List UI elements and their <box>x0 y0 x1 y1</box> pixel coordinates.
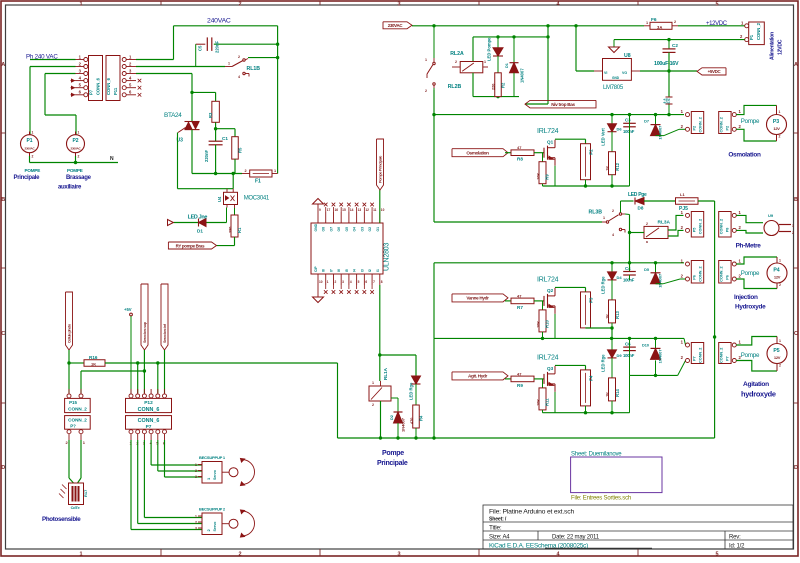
svg-text:1: 1 <box>195 515 197 519</box>
svg-text:2: 2 <box>779 283 781 287</box>
svg-text:12V: 12V <box>773 126 780 131</box>
svg-text:CONN_2: CONN_2 <box>720 219 724 234</box>
svg-text:POMPE: POMPE <box>67 168 83 173</box>
svg-text:Osmolation: Osmolation <box>728 152 761 159</box>
svg-text:R16: R16 <box>89 355 98 360</box>
svg-text:Pompe: Pompe <box>741 352 760 359</box>
svg-text:P2: P2 <box>72 138 78 144</box>
svg-text:O1: O1 <box>376 227 380 232</box>
svg-text:5: 5 <box>715 551 718 557</box>
svg-text:Rev:: Rev: <box>729 535 741 541</box>
svg-text:2: 2 <box>674 20 676 24</box>
svg-text:+5VDC: +5VDC <box>708 69 722 74</box>
svg-text:220nF: 220nF <box>215 40 220 53</box>
svg-text:R9: R9 <box>517 383 523 388</box>
svg-text:D4: D4 <box>617 275 623 280</box>
svg-text:RL2B: RL2B <box>448 84 462 90</box>
svg-text:12V: 12V <box>774 355 781 360</box>
svg-text:F2: F2 <box>589 149 594 155</box>
svg-text:47: 47 <box>517 371 522 376</box>
svg-text:I7: I7 <box>329 269 333 272</box>
svg-text:hydroxyde: hydroxyde <box>741 390 776 399</box>
svg-text:1: 1 <box>372 381 374 385</box>
svg-text:P1: P1 <box>26 138 32 144</box>
svg-text:1N4007: 1N4007 <box>401 417 406 432</box>
svg-text:Q3: Q3 <box>547 366 554 371</box>
svg-text:RL1B: RL1B <box>247 66 261 72</box>
svg-text:I8: I8 <box>322 269 326 272</box>
svg-text:16: 16 <box>334 208 338 212</box>
svg-text:L1: L1 <box>680 192 685 197</box>
svg-text:12VDC: 12VDC <box>778 39 784 55</box>
svg-text:LED Pompe: LED Pompe <box>487 37 492 61</box>
svg-text:2: 2 <box>779 135 781 139</box>
svg-text:240VAC: 240VAC <box>207 18 231 25</box>
svg-text:11: 11 <box>373 208 377 212</box>
svg-text:Principale: Principale <box>14 175 41 181</box>
svg-text:8: 8 <box>381 280 383 284</box>
svg-text:2: 2 <box>245 169 247 173</box>
svg-text:O5: O5 <box>345 227 349 232</box>
svg-text:47: 47 <box>517 145 522 150</box>
svg-text:Servo bec inf: Servo bec inf <box>163 323 167 343</box>
svg-text:14: 14 <box>350 208 354 212</box>
svg-text:10K: 10K <box>537 321 541 328</box>
svg-text:P7: P7 <box>146 424 152 430</box>
svg-text:D10: D10 <box>642 343 649 347</box>
svg-text:D1: D1 <box>505 63 509 68</box>
svg-text:R9: R9 <box>545 174 550 180</box>
svg-text:P6: P6 <box>726 275 730 280</box>
svg-text:3: 3 <box>397 1 400 7</box>
svg-text:VI: VI <box>604 71 607 75</box>
svg-text:R17: R17 <box>83 489 88 497</box>
svg-text:BECSUPPUP 1: BECSUPPUP 1 <box>199 455 226 460</box>
svg-text:2: 2 <box>334 280 336 284</box>
svg-text:CONN_6: CONN_6 <box>96 77 101 95</box>
svg-text:Niv trop Bas: Niv trop Bas <box>551 102 575 107</box>
svg-text:3: 3 <box>195 527 197 531</box>
svg-text:P5: P5 <box>773 348 779 354</box>
svg-text:U9: U9 <box>768 213 774 218</box>
svg-text:5: 5 <box>358 280 360 284</box>
svg-text:POMPE: POMPE <box>25 168 41 173</box>
svg-text:RL3A: RL3A <box>658 220 671 226</box>
svg-text:Title:: Title: <box>489 525 502 532</box>
svg-text:a: a <box>646 240 648 244</box>
svg-text:File: Entrees Sorties.sch: File: Entrees Sorties.sch <box>571 496 631 502</box>
svg-text:10K: 10K <box>537 172 541 179</box>
svg-text:17: 17 <box>327 208 331 212</box>
svg-text:C: C <box>1 331 5 337</box>
svg-text:P6: P6 <box>693 275 697 280</box>
svg-text:P11: P11 <box>113 87 118 95</box>
svg-text:3: 3 <box>195 475 197 479</box>
svg-text:I1: I1 <box>376 269 380 272</box>
svg-text:220: 220 <box>492 84 496 90</box>
svg-text:O4: O4 <box>353 227 357 232</box>
svg-text:230VAC: 230VAC <box>25 147 36 151</box>
svg-text:U8: U8 <box>624 53 631 59</box>
svg-text:I6: I6 <box>337 269 341 272</box>
svg-text:CONN_2: CONN_2 <box>68 407 87 412</box>
svg-text:O8: O8 <box>322 227 326 232</box>
svg-text:47: 47 <box>517 293 522 298</box>
svg-text:13: 13 <box>358 208 362 212</box>
svg-text:2: 2 <box>455 60 457 64</box>
svg-text:9: 9 <box>319 208 321 212</box>
svg-text:C2: C2 <box>672 43 678 48</box>
svg-text:C6: C6 <box>625 341 631 346</box>
svg-text:BECSUPPUP 2: BECSUPPUP 2 <box>199 507 226 512</box>
svg-text:100nF: 100nF <box>623 129 635 134</box>
svg-text:230VAC: 230VAC <box>388 23 404 28</box>
svg-text:Agit. Hydr: Agit. Hydr <box>468 374 487 379</box>
svg-text:1N4007: 1N4007 <box>520 68 525 83</box>
svg-text:1K: 1K <box>91 362 96 367</box>
svg-text:1: 1 <box>32 131 34 135</box>
svg-text:F4: F4 <box>589 375 594 381</box>
svg-text:CONN_2: CONN_2 <box>720 266 724 281</box>
svg-text:A: A <box>794 62 798 68</box>
svg-text:Sheet: Duemilanove: Sheet: Duemilanove <box>571 452 622 458</box>
svg-text:470: 470 <box>410 418 414 424</box>
svg-text:P2: P2 <box>726 126 730 131</box>
svg-text:R13: R13 <box>615 311 620 319</box>
svg-text:LED Vert: LED Vert <box>601 128 606 146</box>
svg-text:1: 1 <box>195 463 197 467</box>
svg-text:I4: I4 <box>353 269 357 272</box>
svg-text:1: 1 <box>327 280 329 284</box>
svg-text:VO: VO <box>622 71 627 75</box>
svg-text:10: 10 <box>319 280 323 284</box>
svg-text:P12: P12 <box>144 400 153 406</box>
svg-text:IRL724: IRL724 <box>537 276 559 283</box>
svg-text:100nF: 100nF <box>623 277 635 282</box>
svg-text:Servo: Servo <box>213 521 217 532</box>
svg-text:1: 1 <box>792 224 794 228</box>
svg-text:1N4007: 1N4007 <box>658 349 663 364</box>
svg-text:C5: C5 <box>198 45 203 51</box>
svg-text:Q2: Q2 <box>547 288 554 293</box>
svg-text:2: 2 <box>646 222 648 226</box>
svg-text:1: 1 <box>274 169 276 173</box>
svg-text:CIP: CIP <box>314 266 318 272</box>
svg-text:12V: 12V <box>774 275 781 280</box>
svg-text:LED Rge: LED Rge <box>409 382 414 400</box>
svg-text:B: B <box>1 197 5 203</box>
svg-text:Agitation: Agitation <box>743 381 769 388</box>
svg-text:I2: I2 <box>368 269 372 272</box>
svg-text:R14: R14 <box>615 389 620 397</box>
svg-text:Pompe: Pompe <box>382 450 404 457</box>
svg-text:CONN_6: CONN_6 <box>138 418 160 424</box>
svg-text:F6: F6 <box>651 17 657 23</box>
svg-text:CONN_2: CONN_2 <box>699 219 703 234</box>
svg-text:F3: F3 <box>589 297 594 303</box>
svg-text:2: 2 <box>792 231 794 235</box>
svg-text:D: D <box>794 465 798 471</box>
svg-text:R8: R8 <box>517 157 523 162</box>
svg-text:2: 2 <box>779 364 781 368</box>
svg-text:1: 1 <box>779 339 781 343</box>
svg-text:C4: C4 <box>625 266 631 271</box>
svg-text:File: Platine Arduino et ext.s: File: Platine Arduino et ext.sch <box>489 509 574 516</box>
svg-text:P5: P5 <box>693 228 697 233</box>
svg-text:10K: 10K <box>537 399 541 406</box>
svg-text:R11: R11 <box>545 398 550 406</box>
svg-text:Cellule photo: Cellule photo <box>68 323 72 343</box>
svg-text:1K: 1K <box>606 392 610 397</box>
svg-text:RL1A: RL1A <box>383 367 388 380</box>
svg-text:P2: P2 <box>693 126 697 131</box>
svg-text:100uF-16V: 100uF-16V <box>654 61 679 67</box>
svg-text:2: 2 <box>195 469 197 473</box>
svg-text:2: 2 <box>78 155 80 159</box>
svg-text:P4: P4 <box>773 268 779 274</box>
svg-text:5: 5 <box>715 1 718 7</box>
svg-text:R10: R10 <box>545 320 550 328</box>
svg-text:A: A <box>1 62 5 68</box>
svg-text:C3: C3 <box>625 118 631 123</box>
svg-text:P15: P15 <box>69 400 77 405</box>
svg-text:I5: I5 <box>345 269 349 272</box>
svg-text:4: 4 <box>350 280 352 284</box>
svg-text:P1: P1 <box>749 34 754 40</box>
svg-text:R1: R1 <box>237 227 242 233</box>
svg-text:1: 1 <box>78 131 80 135</box>
svg-text:Vanne Hydr: Vanne Hydr <box>466 296 489 301</box>
svg-text:P7: P7 <box>89 89 94 95</box>
svg-text:R3: R3 <box>208 112 213 118</box>
svg-text:1K: 1K <box>606 314 610 319</box>
svg-text:D7: D7 <box>644 120 649 124</box>
svg-text:P3: P3 <box>773 119 779 125</box>
svg-text:Pompe: Pompe <box>741 118 760 125</box>
svg-text:2: 2 <box>425 89 427 93</box>
svg-text:I3: I3 <box>360 269 364 272</box>
svg-text:390: 390 <box>229 227 233 233</box>
svg-text:LED Rge: LED Rge <box>601 354 606 372</box>
svg-text:Hydroxyde: Hydroxyde <box>735 304 766 311</box>
svg-text:CONN_2: CONN_2 <box>699 117 703 132</box>
svg-text:3: 3 <box>342 280 344 284</box>
svg-text:CONN_6: CONN_6 <box>138 407 160 413</box>
svg-text:15: 15 <box>342 208 346 212</box>
svg-text:LM7805: LM7805 <box>603 85 624 91</box>
svg-text:R4: R4 <box>419 415 424 421</box>
svg-text:D9: D9 <box>617 353 623 358</box>
svg-text:2: 2 <box>195 521 197 525</box>
svg-text:IRL724: IRL724 <box>537 128 559 135</box>
svg-text:Injection: Injection <box>734 294 758 301</box>
svg-text:CONN_2: CONN_2 <box>756 22 761 40</box>
svg-text:2: 2 <box>372 403 374 407</box>
svg-text:C1: C1 <box>222 136 228 141</box>
svg-text:D6: D6 <box>617 127 623 132</box>
svg-text:Servo bec sup: Servo bec sup <box>143 321 147 343</box>
svg-text:D8: D8 <box>638 206 644 211</box>
svg-text:4: 4 <box>612 233 614 237</box>
svg-text:Servo: Servo <box>213 469 217 480</box>
svg-text:2: 2 <box>238 1 241 7</box>
svg-text:1: 1 <box>79 1 82 7</box>
svg-text:CONN_2: CONN_2 <box>68 418 87 423</box>
svg-text:2: 2 <box>238 55 240 59</box>
svg-text:D5: D5 <box>644 268 649 272</box>
svg-text:LED Jne: LED Jne <box>188 215 208 221</box>
svg-text:1: 1 <box>779 110 781 114</box>
svg-text:CONN_6: CONN_6 <box>106 77 111 95</box>
svg-text:P7: P7 <box>693 356 697 361</box>
svg-text:CdTe: CdTe <box>71 505 81 510</box>
svg-text:GND: GND <box>314 223 318 231</box>
svg-text:7: 7 <box>373 280 375 284</box>
svg-text:Id: 1/2: Id: 1/2 <box>729 544 745 550</box>
svg-text:P7: P7 <box>726 356 730 361</box>
svg-text:D2: D2 <box>390 415 394 420</box>
svg-text:O2: O2 <box>368 227 372 232</box>
svg-text:RY pompe Bras: RY pompe Bras <box>176 243 205 248</box>
svg-text:CONN_2: CONN_2 <box>720 348 724 363</box>
svg-text:O3: O3 <box>360 227 364 232</box>
svg-text:CONN_2: CONN_2 <box>720 117 724 132</box>
svg-text:R12: R12 <box>615 162 620 170</box>
svg-text:RL2A: RL2A <box>450 51 464 57</box>
svg-text:1: 1 <box>228 62 230 66</box>
svg-text:IRL724: IRL724 <box>537 354 559 361</box>
svg-text:MOC3041: MOC3041 <box>244 196 270 202</box>
svg-text:Brassage: Brassage <box>66 175 92 181</box>
svg-text:12: 12 <box>365 208 369 212</box>
svg-text:1: 1 <box>779 259 781 263</box>
svg-text:6: 6 <box>365 280 367 284</box>
svg-text:ULN2803: ULN2803 <box>384 243 391 271</box>
svg-text:RL3B: RL3B <box>589 210 603 216</box>
svg-text:Sheet: /: Sheet: / <box>489 517 507 523</box>
svg-text:Alimentation: Alimentation <box>770 32 776 60</box>
svg-text:GND: GND <box>612 76 620 80</box>
svg-text:10: 10 <box>381 208 385 212</box>
svg-text:220nF: 220nF <box>204 149 209 162</box>
svg-text:CONN_2: CONN_2 <box>699 266 703 281</box>
svg-text:R2: R2 <box>501 82 506 88</box>
svg-text:BTA24: BTA24 <box>164 112 182 119</box>
svg-text:3A: 3A <box>657 25 662 30</box>
svg-text:+5V: +5V <box>663 97 671 102</box>
svg-text:auxiliaire: auxiliaire <box>58 185 82 191</box>
svg-text:O7: O7 <box>329 227 333 232</box>
svg-text:+5V: +5V <box>124 307 132 312</box>
svg-text:1: 1 <box>603 216 605 220</box>
svg-text:N: N <box>110 156 114 162</box>
svg-text:Pompe Principale: Pompe Principale <box>379 156 383 183</box>
svg-text:Photosensible: Photosensible <box>42 516 81 523</box>
svg-text:U4: U4 <box>217 196 222 202</box>
svg-text:2: 2 <box>238 551 241 557</box>
svg-text:1N4007: 1N4007 <box>658 125 663 140</box>
svg-text:O6: O6 <box>337 227 341 232</box>
svg-text:F1: F1 <box>255 179 261 185</box>
svg-text:Ph-Metre: Ph-Metre <box>736 243 762 250</box>
svg-text:R7: R7 <box>517 305 523 310</box>
svg-text:1: 1 <box>79 551 82 557</box>
svg-text:3: 3 <box>397 551 400 557</box>
svg-text:B: B <box>794 197 798 203</box>
svg-text:C: C <box>794 331 798 337</box>
svg-text:4: 4 <box>238 75 240 79</box>
svg-text:Pompe: Pompe <box>741 270 760 277</box>
svg-text:1K: 1K <box>606 166 610 171</box>
svg-text:CONN_2: CONN_2 <box>699 348 703 363</box>
svg-text:100nF: 100nF <box>623 353 635 358</box>
svg-text:Principale: Principale <box>377 460 408 467</box>
svg-text:Size: A4: Size: A4 <box>489 535 510 541</box>
svg-text:1: 1 <box>646 21 648 25</box>
svg-text:P8: P8 <box>726 228 730 233</box>
svg-text:1N4007: 1N4007 <box>658 273 663 288</box>
svg-text:D1: D1 <box>197 229 203 234</box>
svg-text:2: 2 <box>612 209 614 213</box>
svg-text:P?: P? <box>70 424 76 429</box>
svg-text:2: 2 <box>32 155 34 159</box>
svg-text:LED Rge: LED Rge <box>601 276 606 294</box>
svg-text:Osmolation: Osmolation <box>466 151 489 156</box>
svg-text:Q1: Q1 <box>547 140 554 145</box>
svg-text:230VAC: 230VAC <box>71 147 82 151</box>
svg-text:D: D <box>1 465 5 471</box>
svg-text:R5: R5 <box>238 147 243 153</box>
svg-text:1: 1 <box>425 58 427 62</box>
svg-text:Date: 22 may 2011: Date: 22 may 2011 <box>552 535 600 541</box>
